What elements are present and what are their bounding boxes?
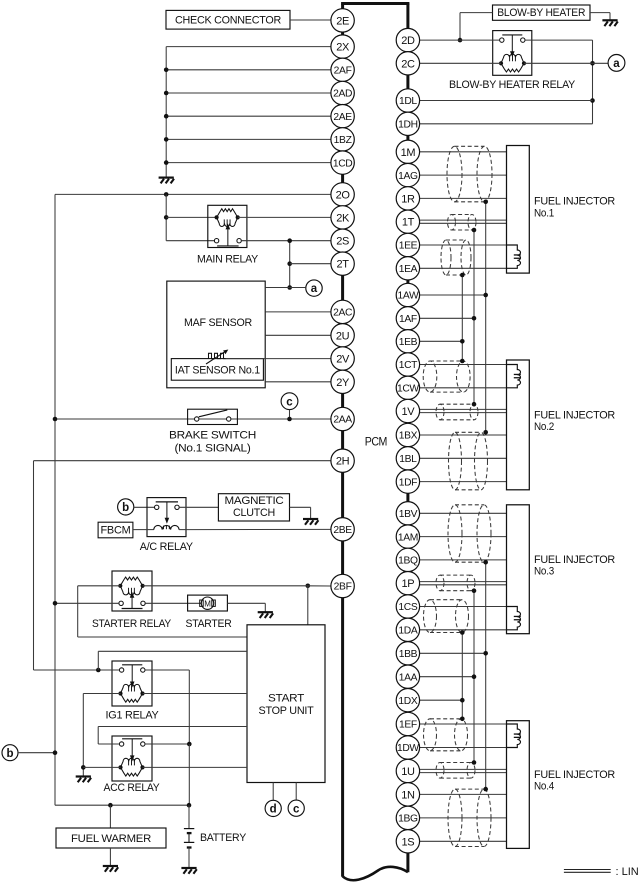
svg-text:No.4: No.4: [534, 781, 554, 793]
svg-text:1AA: 1AA: [399, 672, 418, 683]
svg-text:2Y: 2Y: [336, 377, 350, 389]
svg-text:FUEL INJECTOR: FUEL INJECTOR: [534, 769, 615, 781]
svg-text:MAGNETIC: MAGNETIC: [225, 495, 284, 507]
svg-text:MAF SENSOR: MAF SENSOR: [184, 317, 252, 329]
svg-text:b: b: [122, 502, 129, 514]
svg-text:1P: 1P: [402, 578, 415, 590]
svg-text:No.1: No.1: [534, 207, 554, 219]
svg-text:1DH: 1DH: [398, 120, 418, 131]
svg-text:2X: 2X: [336, 42, 350, 54]
svg-text:1BL: 1BL: [399, 454, 417, 465]
svg-text:FUEL INJECTOR: FUEL INJECTOR: [534, 409, 615, 421]
svg-text:BATTERY: BATTERY: [200, 832, 247, 844]
svg-text:1N: 1N: [401, 789, 415, 801]
svg-text:1CT: 1CT: [399, 360, 418, 371]
svg-text:1AM: 1AM: [398, 532, 418, 543]
svg-text:START: START: [268, 693, 305, 705]
svg-text:CLUTCH: CLUTCH: [233, 507, 275, 519]
svg-text:1EA: 1EA: [399, 264, 418, 275]
svg-text:IG1 RELAY: IG1 RELAY: [106, 709, 160, 721]
svg-text:1BG: 1BG: [398, 814, 418, 825]
svg-text:1AG: 1AG: [398, 171, 418, 182]
svg-text:1DW: 1DW: [397, 743, 419, 754]
svg-text:FUEL INJECTOR: FUEL INJECTOR: [534, 196, 615, 208]
svg-text:2H: 2H: [336, 456, 350, 468]
svg-text:2AD: 2AD: [333, 89, 352, 100]
svg-text:2BE: 2BE: [333, 525, 352, 536]
svg-text:M: M: [204, 600, 211, 609]
svg-text:1M: 1M: [401, 147, 416, 159]
svg-text:2U: 2U: [336, 330, 350, 342]
svg-text:a: a: [311, 283, 318, 295]
svg-text:c: c: [286, 396, 293, 408]
svg-text:: LIN: : LIN: [616, 866, 639, 878]
svg-text:1DX: 1DX: [398, 696, 417, 707]
svg-text:1S: 1S: [402, 836, 415, 848]
svg-text:1DA: 1DA: [398, 626, 417, 637]
svg-text:1BQ: 1BQ: [398, 556, 418, 567]
svg-text:1BZ: 1BZ: [334, 135, 352, 146]
svg-text:(No.1 SIGNAL): (No.1 SIGNAL): [175, 442, 251, 454]
svg-text:1V: 1V: [402, 406, 416, 418]
svg-text:PCM: PCM: [365, 434, 388, 448]
svg-text:FUEL INJECTOR: FUEL INJECTOR: [534, 554, 615, 566]
svg-text:2AE: 2AE: [333, 112, 352, 123]
svg-text:2AA: 2AA: [333, 415, 352, 426]
svg-text:2V: 2V: [336, 353, 350, 365]
svg-text:1EF: 1EF: [399, 720, 417, 731]
svg-text:2C: 2C: [401, 58, 415, 70]
svg-text:2E: 2E: [336, 15, 349, 27]
svg-text:2AF: 2AF: [334, 66, 352, 77]
svg-text:MAIN RELAY: MAIN RELAY: [197, 253, 259, 265]
svg-text:1AF: 1AF: [399, 314, 417, 325]
svg-text:1T: 1T: [402, 217, 415, 229]
svg-text:a: a: [613, 58, 620, 70]
svg-text:1AW: 1AW: [397, 291, 419, 302]
svg-text:1CW: 1CW: [397, 384, 419, 395]
svg-text:2BF: 2BF: [334, 582, 352, 593]
svg-text:STARTER: STARTER: [186, 618, 232, 630]
svg-text:1EE: 1EE: [399, 241, 418, 252]
svg-text:A/C RELAY: A/C RELAY: [140, 541, 194, 553]
svg-text:1DF: 1DF: [399, 477, 417, 488]
svg-text:1BX: 1BX: [399, 431, 418, 442]
svg-text:c: c: [293, 803, 300, 815]
svg-text:BRAKE SWITCH: BRAKE SWITCH: [169, 430, 256, 442]
svg-text:2T: 2T: [337, 259, 350, 271]
svg-text:ACC RELAY: ACC RELAY: [104, 782, 161, 794]
svg-text:b: b: [6, 748, 13, 760]
svg-text:d: d: [270, 804, 277, 816]
svg-text:No.3: No.3: [534, 566, 554, 578]
svg-text:2D: 2D: [401, 35, 415, 47]
svg-text:IAT SENSOR No.1: IAT SENSOR No.1: [175, 364, 260, 376]
svg-text:BLOW-BY HEATER: BLOW-BY HEATER: [497, 7, 585, 19]
svg-text:2S: 2S: [336, 236, 349, 248]
svg-text:CHECK CONNECTOR: CHECK CONNECTOR: [175, 15, 281, 27]
svg-text:2O: 2O: [336, 189, 351, 201]
svg-text:1CD: 1CD: [333, 158, 353, 169]
svg-text:1CS: 1CS: [398, 602, 417, 613]
svg-text:FBCM: FBCM: [101, 525, 131, 537]
svg-text:STOP UNIT: STOP UNIT: [259, 705, 315, 717]
svg-text:1EB: 1EB: [399, 337, 418, 348]
svg-text:2K: 2K: [336, 212, 350, 224]
svg-text:1DL: 1DL: [399, 96, 417, 107]
svg-text:1BV: 1BV: [399, 509, 418, 520]
svg-text:BLOW-BY HEATER RELAY: BLOW-BY HEATER RELAY: [449, 79, 576, 91]
svg-text:No.2: No.2: [534, 421, 554, 433]
svg-text:1R: 1R: [401, 193, 415, 205]
svg-text:1BB: 1BB: [399, 649, 418, 660]
svg-text:STARTER RELAY: STARTER RELAY: [92, 618, 172, 630]
svg-text:1U: 1U: [401, 766, 415, 778]
svg-text:2AC: 2AC: [333, 308, 353, 319]
svg-text:FUEL WARMER: FUEL WARMER: [71, 833, 151, 845]
